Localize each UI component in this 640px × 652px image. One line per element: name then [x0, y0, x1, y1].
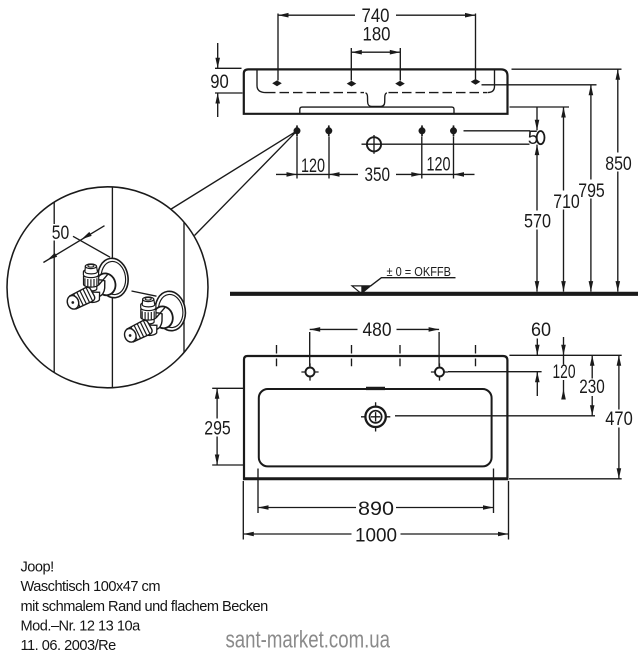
svg-text:90: 90 — [210, 72, 229, 93]
wall line 2 — [111, 188, 113, 388]
dimension 50 top arrow — [536, 107, 538, 130]
leader to valve 1 — [73, 236, 110, 257]
wall line 3 — [183, 223, 185, 353]
wall line 3 — [183, 223, 185, 353]
dimension 90 extension lines — [215, 68, 243, 93]
dimension 230 — [591, 355, 593, 416]
drain level extension line — [395, 415, 595, 417]
svg-text:Waschtisch 100x47 cm: Waschtisch 100x47 cm — [21, 579, 161, 595]
dimension 795 — [590, 85, 592, 292]
svg-text:sant-market.com.ua: sant-market.com.ua — [226, 625, 391, 652]
outlet pipe end ellipse (reads as 0 of 50) — [537, 131, 545, 144]
tap hole mark 4 (front) — [471, 79, 481, 85]
dimension 795 — [590, 85, 592, 292]
extension lines fixing dots — [297, 137, 454, 179]
outlet pipe top line — [464, 130, 531, 132]
drain outlet centerline (front) — [362, 143, 530, 145]
extension line 795 (tap holes) — [482, 84, 597, 86]
centerline tick 2 — [351, 345, 353, 366]
svg-text:230: 230 — [579, 377, 605, 398]
leader to valve 2 — [132, 291, 157, 296]
detail dimension 50 text — [50, 224, 72, 241]
dimension 850 — [617, 69, 619, 291]
dimension 890 line — [258, 507, 494, 509]
plan top edge extension line — [509, 354, 621, 356]
tap hole level extension line — [448, 371, 542, 373]
tap hole mark 1 (front) — [272, 80, 282, 86]
dimension 295 extension lines — [212, 388, 243, 465]
extension line 850 (top edge) — [512, 68, 622, 70]
dimension 570 (and 50 bottom arrow) — [536, 145, 538, 292]
plan view bottom edge thick — [243, 477, 508, 480]
plan view inner basin — [259, 389, 492, 466]
extension line 795 (tap holes) — [482, 84, 597, 86]
drain symbol (plan) — [361, 402, 390, 431]
tap hole circle 1 (plan) — [301, 363, 318, 380]
centerline tick 1 — [276, 345, 278, 366]
front view basin outline — [244, 69, 508, 113]
dimension 90 extension lines — [215, 68, 243, 93]
detail circle boundary — [7, 187, 208, 388]
dimension 180 line — [351, 51, 400, 53]
front view inner rim curve right — [488, 71, 495, 93]
dimension 60 arrows — [536, 339, 538, 397]
centerline tick 3 — [399, 345, 401, 366]
dimension 350 text — [358, 167, 396, 183]
wall line 2 — [111, 188, 113, 388]
floor line — [230, 292, 638, 296]
dimension 740 text — [355, 7, 396, 25]
extension line 710 (basin bottom) — [510, 106, 570, 108]
svg-text:1000: 1000 — [355, 526, 397, 547]
svg-text:470: 470 — [605, 409, 633, 430]
svg-text:120: 120 — [427, 155, 451, 176]
wall line 1 — [53, 203, 55, 373]
dimension line 120/350/120 — [276, 173, 475, 175]
detail dimension 50 oblique line — [43, 226, 104, 263]
dimension 480 line — [310, 328, 439, 330]
overflow slot dash — [366, 387, 385, 390]
dimension 740 extension lines — [278, 14, 476, 81]
tap hole mark 2 (front) — [347, 81, 357, 87]
dimension 470 — [618, 355, 620, 479]
dimension 180 line — [351, 51, 400, 53]
leader to valve 1 — [73, 236, 110, 257]
dimension 180 extension lines — [351, 48, 400, 81]
svg-text:60: 60 — [531, 320, 551, 341]
extension lines fixing dots — [297, 137, 454, 179]
svg-text:850: 850 — [605, 154, 632, 175]
front view inner rim curve right — [488, 71, 495, 93]
wall line 1 — [53, 203, 55, 373]
tap hole mark 3 (front) — [395, 81, 405, 87]
outlet pipe end ellipse (reads as 0 of 50) — [537, 131, 545, 144]
fixing hole dot 1 — [294, 125, 301, 136]
dimension 1000 extension lines — [243, 481, 508, 540]
front view recessed bottom line — [300, 107, 454, 114]
drain outlet circle (front) — [367, 137, 381, 151]
tap hole mark 2 (front) — [347, 81, 357, 87]
svg-text:50: 50 — [52, 223, 70, 244]
svg-text:120: 120 — [301, 156, 325, 177]
fixing hole dot 4 — [450, 125, 457, 136]
dimension 710 — [563, 107, 565, 292]
dimension 710 — [563, 107, 565, 292]
floor level leader and underline — [371, 278, 456, 286]
front view drain funnel — [366, 93, 387, 107]
centerline tick 4 — [475, 345, 477, 366]
dimension 740 line — [278, 14, 476, 16]
svg-text:11. 06. 2003/Re: 11. 06. 2003/Re — [21, 638, 117, 652]
drain outlet vertical centerline (front) — [373, 135, 375, 154]
fixing hole dot 2 — [325, 125, 332, 136]
floor level symbol triangle — [352, 286, 371, 294]
angle valve 1 — [65, 256, 130, 310]
svg-text:295: 295 — [204, 419, 231, 440]
leader to valve 2 — [132, 291, 157, 296]
leader lines to detail circle — [171, 131, 297, 236]
front view recessed bottom line — [300, 107, 454, 114]
dimension 890 extension lines — [258, 469, 494, 514]
extension line 850 (top edge) — [512, 68, 622, 70]
dimension 120 (plan) — [563, 337, 565, 355]
detail dimension 50 oblique line — [43, 226, 104, 263]
svg-text:Mod.–Nr. 12 13 10a: Mod.–Nr. 12 13 10a — [21, 619, 142, 635]
front view drain funnel — [366, 93, 387, 107]
dimension line 120/350/120 — [276, 173, 475, 175]
svg-text:120: 120 — [553, 362, 576, 383]
angle valve 2 — [123, 289, 188, 343]
tap hole circle 2 (plan) — [431, 363, 448, 380]
svg-text:± 0 = OKFFB: ± 0 = OKFFB — [387, 264, 452, 279]
detail circle boundary — [7, 187, 208, 388]
tap hole mark 3 (front) — [395, 81, 405, 87]
extension line 710 (basin bottom) — [510, 106, 570, 108]
tap hole mark 1 (front) — [272, 80, 282, 86]
plan view outer outline — [244, 356, 507, 479]
drain outlet circle (front) — [367, 137, 381, 151]
svg-text:710: 710 — [553, 192, 580, 213]
dimension 1000 line — [243, 533, 508, 535]
dimension 350 text — [358, 167, 396, 183]
drain outlet vertical centerline (front) — [373, 135, 375, 154]
dimension 570 (and 50 bottom arrow) — [536, 145, 538, 292]
outlet pipe top line — [464, 130, 531, 132]
dimension 90 arrows — [217, 43, 219, 117]
fixing hole dot 3 — [419, 125, 426, 136]
tap hole mark 4 (front) — [471, 79, 481, 85]
floor line — [230, 292, 638, 296]
svg-text:350: 350 — [365, 165, 391, 186]
svg-text:795: 795 — [578, 181, 605, 202]
dimension 180 extension lines — [351, 48, 400, 81]
dimension 740 extension lines — [278, 14, 476, 81]
dimension 295 line — [216, 388, 218, 465]
front view inner rim curve left — [257, 71, 266, 93]
drain outlet centerline (front) — [362, 143, 530, 145]
svg-text:570: 570 — [524, 212, 551, 233]
plan bottom extension line — [509, 478, 622, 480]
detail dimension 50 text — [50, 224, 72, 241]
svg-text:mit schmalem Rand und flachem: mit schmalem Rand und flachem Becken — [21, 599, 269, 615]
svg-text:480: 480 — [363, 320, 392, 341]
svg-text:Joop!: Joop! — [21, 560, 54, 576]
fixing hole dot 4 — [450, 125, 457, 136]
dimension 480 extension lines — [310, 332, 439, 366]
dimension 740 line — [278, 14, 476, 16]
dimension 50 top arrow — [536, 107, 538, 130]
floor level leader and underline — [371, 278, 456, 286]
dimension 740 text — [355, 7, 396, 25]
dimension 90 arrows — [217, 43, 219, 117]
fixing hole dot 1 — [294, 125, 301, 136]
svg-text:890: 890 — [358, 499, 394, 520]
floor level symbol triangle — [352, 286, 371, 294]
front view basin outline — [244, 69, 508, 113]
fixing hole dot 3 — [419, 125, 426, 136]
front view inner rim curve left — [257, 71, 266, 93]
fixing hole dot 2 — [325, 125, 332, 136]
svg-text:180: 180 — [363, 25, 391, 46]
dimension 850 — [617, 69, 619, 291]
front view hidden basin bottom dashed line — [266, 92, 364, 94]
front view hidden basin bottom dashed line — [266, 92, 364, 94]
leader lines to detail circle — [171, 131, 297, 236]
